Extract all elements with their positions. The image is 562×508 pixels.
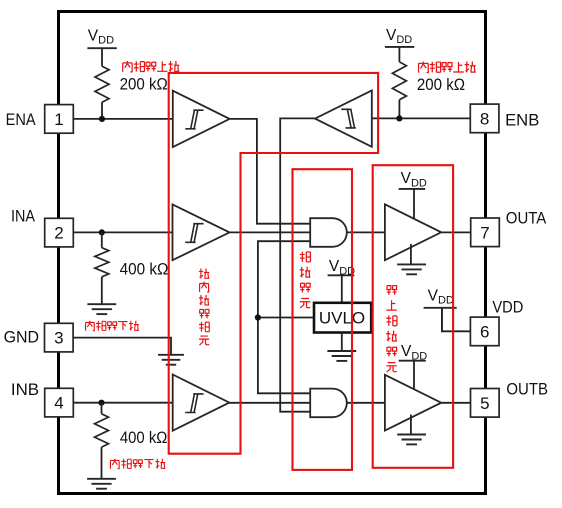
red region schmitt triggers + enable buffers bbox=[169, 73, 378, 454]
node UVLO junction dot bbox=[255, 314, 261, 320]
svg-text:200 kΩ: 200 kΩ bbox=[120, 75, 168, 94]
hysteresis symbol INA bbox=[185, 224, 203, 243]
svg-text:8: 8 bbox=[480, 110, 489, 129]
svg-text:1: 1 bbox=[54, 110, 63, 129]
pin 7 OUTA bbox=[471, 218, 500, 247]
ground internal for GND pin bbox=[158, 355, 184, 365]
svg-text:ENA: ENA bbox=[6, 111, 36, 129]
svg-text:INB: INB bbox=[11, 381, 39, 399]
AND gate B bbox=[310, 389, 347, 418]
wire UVLO to ground bbox=[341, 333, 343, 352]
resistor R-INA 400k pull-down bbox=[95, 248, 109, 277]
schmitt trigger INA bbox=[173, 204, 230, 260]
label schmitt trigger unit (vertical) bbox=[199, 268, 209, 278]
label level shift unit (vertical) bbox=[387, 286, 397, 295]
inverting buffer ENB bbox=[315, 90, 372, 146]
node INB junction dot bbox=[98, 400, 104, 406]
svg-text:6: 6 bbox=[480, 323, 489, 342]
output driver B bbox=[385, 375, 441, 431]
wire driver A output to pin7 bbox=[441, 231, 470, 233]
pin 8 ENB bbox=[470, 104, 499, 133]
wire driver A to ground bbox=[410, 244, 412, 264]
pin 3 GND bbox=[45, 323, 74, 352]
svg-text:GND: GND bbox=[4, 329, 40, 347]
label internal weak pull-down (INB) bbox=[110, 459, 119, 469]
AND gate A bbox=[310, 218, 347, 247]
resistor R-ENA 200k pull-up bbox=[95, 66, 109, 102]
red region level shift unit bbox=[373, 165, 453, 468]
wire INA Schmitt output to AND gate A middle input bbox=[229, 231, 315, 233]
pin 5 OUTB bbox=[471, 389, 500, 418]
node INA junction dot bbox=[99, 229, 105, 235]
ground below R-INA bbox=[87, 304, 116, 314]
wire resistor to ground INB bbox=[101, 447, 103, 479]
wire INA node to resistor bbox=[101, 232, 103, 247]
svg-text:5: 5 bbox=[480, 394, 489, 413]
svg-text:OUTA: OUTA bbox=[506, 210, 547, 228]
resistor R-ENB 200k pull-up bbox=[392, 62, 406, 100]
svg-text:2: 2 bbox=[54, 224, 63, 243]
svg-text:7: 7 bbox=[480, 223, 489, 242]
svg-text:INA: INA bbox=[11, 207, 35, 225]
ground below driver A bbox=[397, 264, 426, 274]
svg-text:3: 3 bbox=[54, 329, 63, 348]
svg-text:400 kΩ: 400 kΩ bbox=[120, 428, 167, 447]
svg-text:200 kΩ: 200 kΩ bbox=[417, 75, 465, 94]
wire INB node to resistor bbox=[101, 403, 103, 414]
svg-text:UVLO: UVLO bbox=[319, 309, 365, 328]
svg-text:ENB: ENB bbox=[505, 111, 539, 129]
ground below R-INB bbox=[87, 479, 116, 489]
wire ENB pin8 to inverting buffer input bbox=[372, 117, 471, 119]
wire GND pin3 to internal ground bbox=[73, 338, 171, 354]
node ENB junction dot bbox=[396, 115, 402, 121]
hysteresis symbol INB bbox=[185, 394, 203, 413]
wire ENA pin1 to Schmitt input bbox=[73, 118, 177, 120]
wire AND gate B output to driver B bbox=[347, 402, 386, 404]
wire VDD to pin6 bbox=[442, 308, 470, 332]
wire AND gate A output to driver A bbox=[347, 231, 386, 233]
node ENA junction dot bbox=[99, 116, 105, 122]
wire ENB buffer output to AND gate B bottom input bbox=[280, 118, 316, 411]
label internal weak pull-up (left) bbox=[123, 61, 132, 72]
ground below UVLO bbox=[327, 351, 356, 361]
UVLO block bbox=[314, 303, 371, 333]
wire UVLO input bbox=[258, 317, 315, 319]
svg-text:VDD: VDD bbox=[492, 298, 523, 316]
svg-text:4: 4 bbox=[54, 394, 63, 413]
ground below driver B bbox=[397, 435, 426, 445]
label internal weak pull-down (INA) bbox=[86, 321, 95, 331]
svg-text:OUTB: OUTB bbox=[506, 381, 548, 399]
wire resistor to ENA node bbox=[101, 102, 103, 119]
label internal weak pull-up (right) bbox=[419, 61, 429, 72]
wire resistor to ground INA bbox=[101, 277, 103, 304]
pin 1 ENA bbox=[45, 105, 74, 134]
wire UVLO output to both AND gates bbox=[258, 241, 315, 393]
wire INB Schmitt output to AND gate B middle input bbox=[229, 402, 315, 404]
hysteresis symbol ENB bbox=[341, 109, 356, 128]
svg-text:400 kΩ: 400 kΩ bbox=[120, 260, 169, 279]
wire ENA Schmitt output to AND gate A top input bbox=[229, 119, 315, 224]
hysteresis symbol ENA bbox=[185, 110, 203, 129]
wire INB pin4 to Schmitt input bbox=[73, 402, 177, 404]
wire INA pin2 to Schmitt input bbox=[73, 231, 177, 233]
IC outline border bbox=[59, 12, 486, 494]
pin 4 INB bbox=[45, 388, 74, 417]
label logic unit (vertical) bbox=[300, 252, 311, 262]
wire driver B output to pin5 bbox=[441, 402, 470, 404]
red region logic unit bbox=[293, 169, 353, 470]
pin 2 INA bbox=[45, 218, 74, 247]
resistor R-INB 400k pull-down bbox=[95, 414, 109, 447]
wire resistor to ENB node bbox=[398, 100, 400, 119]
wire driver B to ground bbox=[410, 415, 412, 435]
schmitt trigger ENA bbox=[173, 91, 230, 147]
pin 6 VDD bbox=[470, 317, 499, 346]
output driver A bbox=[385, 204, 441, 260]
schmitt trigger INB bbox=[173, 375, 230, 431]
